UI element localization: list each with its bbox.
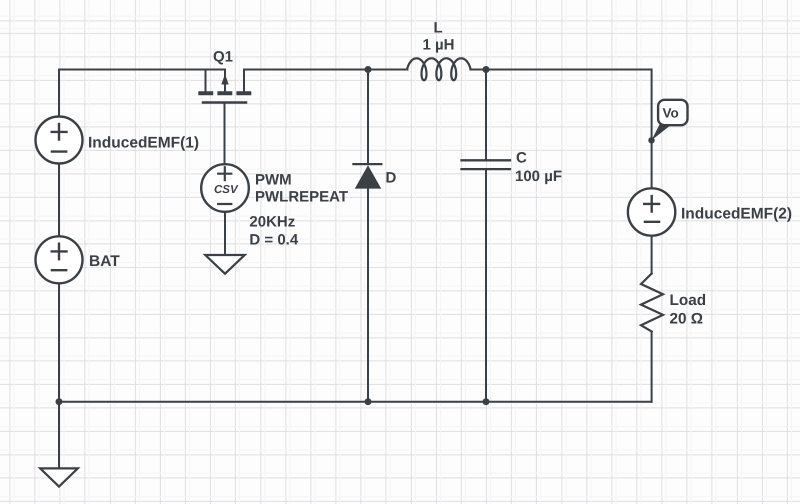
wire diode bottom — [367, 188, 369, 402]
wire ground stub left — [58, 402, 60, 469]
ground bottom-left — [40, 468, 78, 486]
wire pwm to ground — [224, 212, 226, 255]
svg-text:20 Ω: 20 Ω — [670, 311, 704, 328]
resistor Load — [641, 274, 663, 332]
voltage source PWM (CSV) — [201, 164, 249, 212]
voltage source BAT — [36, 236, 83, 283]
voltage source InducedEMF(1) — [36, 117, 83, 164]
svg-text:D = 0.4: D = 0.4 — [249, 231, 298, 248]
svg-text:Load: Load — [670, 292, 707, 309]
inductor L coil — [407, 58, 470, 80]
svg-text:100 µF: 100 µF — [515, 168, 562, 185]
svg-text:InducedEMF(2): InducedEMF(2) — [681, 206, 792, 223]
svg-text:Q1: Q1 — [213, 49, 233, 66]
wire capacitor bottom — [485, 170, 487, 402]
wire left lower — [58, 284, 60, 402]
wire diode top — [367, 70, 369, 164]
transistor Q1 — [198, 70, 251, 103]
svg-text:C: C — [516, 150, 527, 167]
node junction ground left — [56, 398, 63, 405]
node junction diode bottom — [365, 398, 372, 405]
svg-text:PWLREPEAT: PWLREPEAT — [255, 188, 348, 205]
node junction capacitor bottom — [483, 398, 490, 405]
wire emf2 to load — [651, 236, 653, 274]
node Vo label box — [658, 100, 687, 125]
svg-text:CSV: CSV — [214, 184, 239, 196]
capacitor C — [462, 160, 511, 169]
wire bottom rail — [59, 401, 652, 403]
node junction inductor-capacitor — [483, 66, 490, 73]
wire right lower — [651, 332, 653, 402]
node Vo dot — [648, 137, 654, 143]
voltage source InducedEMF(2) — [628, 188, 675, 235]
diode D — [354, 164, 382, 189]
svg-text:Vo: Vo — [663, 106, 679, 121]
node junction diode top — [365, 66, 372, 73]
svg-text:20KHz: 20KHz — [249, 213, 295, 230]
svg-text:PWM: PWM — [255, 172, 292, 189]
wire gate — [224, 103, 226, 166]
svg-text:InducedEMF(1): InducedEMF(1) — [88, 135, 199, 152]
svg-text:BAT: BAT — [89, 253, 120, 270]
ground pwm — [205, 255, 244, 274]
wire top-left rail — [59, 70, 225, 117]
wire top-right rail — [470, 70, 651, 189]
svg-text:L: L — [434, 20, 443, 37]
wire capacitor top — [485, 70, 487, 160]
node Vo pointer — [652, 125, 672, 141]
svg-text:1 µH: 1 µH — [423, 37, 455, 54]
wire top-mid rail — [244, 69, 407, 71]
svg-text:D: D — [386, 170, 397, 187]
wire left mid — [58, 163, 60, 236]
